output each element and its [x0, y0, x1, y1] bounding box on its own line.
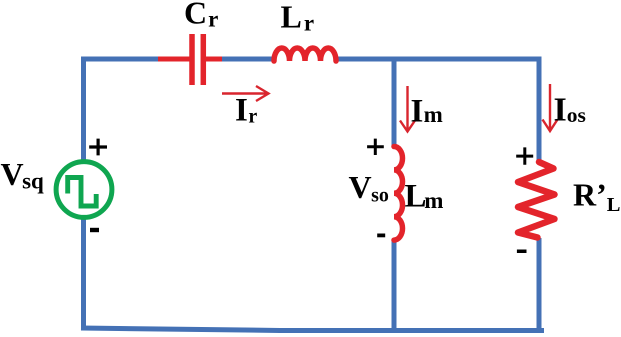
capacitor Cr right lead	[206, 57, 222, 62]
wire middle vertical bottom (Lm to bottom)	[392, 239, 397, 331]
label minus at source	[90, 228, 99, 232]
wire left vertical below source to bottom-left corner	[81, 217, 86, 330]
wire top-left horizontal and left vertical down to source	[84, 59, 161, 164]
source Vsq circle	[56, 162, 112, 218]
arrow Im	[400, 86, 415, 132]
wire top middle blue segment between capacitor and inductor	[220, 57, 273, 62]
arrow Ios	[543, 84, 558, 131]
arrow Ir	[222, 86, 269, 101]
label plus at Lm	[367, 139, 384, 155]
wire right vertical bottom (resistor to bottom)	[537, 238, 542, 331]
label minus at resistor	[517, 250, 527, 254]
capacitor Cr plate 1	[189, 34, 195, 85]
wire bottom horizontal	[81, 328, 544, 331]
capacitor Cr plate 2	[201, 34, 207, 85]
label plus at resistor	[516, 147, 533, 164]
wire top-right horizontal and right vertical down to resistor	[337, 59, 539, 163]
capacitor Cr left lead	[158, 57, 190, 62]
label plus at source	[89, 139, 107, 156]
label minus at Lm	[377, 234, 385, 238]
resistor R'L zigzag	[518, 162, 555, 238]
inductor Lr coil	[274, 48, 336, 61]
source square-wave symbol	[68, 178, 97, 207]
wire middle vertical top (node to Lm)	[392, 59, 397, 147]
inductor Lm coil	[394, 147, 403, 241]
